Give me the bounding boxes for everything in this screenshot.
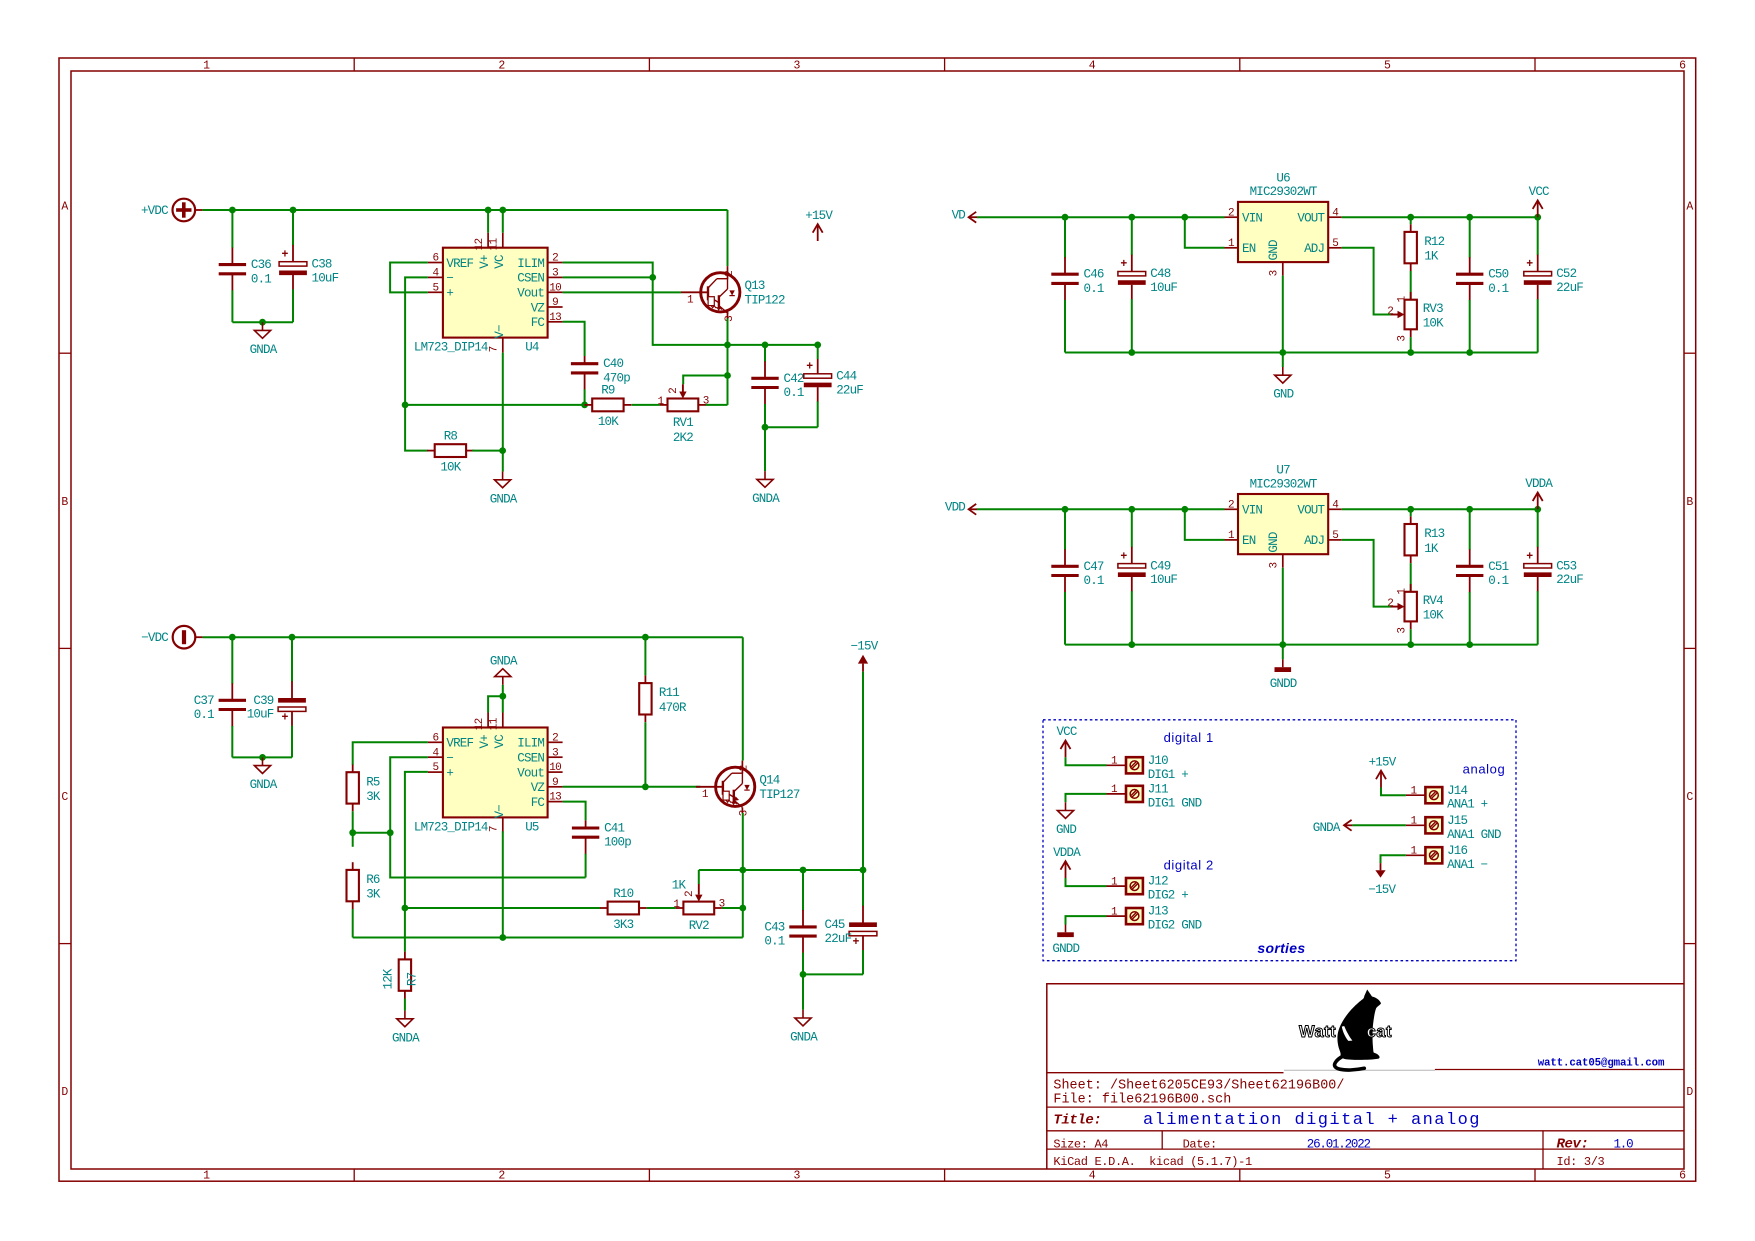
ground GNDA: [392, 1011, 420, 1046]
junction: [762, 424, 769, 431]
wire: [405, 277, 428, 450]
svg-text:−VDC: −VDC: [141, 631, 168, 645]
svg-text:VD: VD: [952, 208, 966, 222]
svg-text:KiCad E.D.A. kicad (5.1.7)-1: KiCad E.D.A. kicad (5.1.7)-1: [1053, 1155, 1252, 1169]
svg-text:LM723_DIP14: LM723_DIP14: [414, 341, 488, 355]
svg-text:EN: EN: [1242, 242, 1256, 256]
svg-text:0.1: 0.1: [1084, 282, 1104, 296]
svg-text:C48: C48: [1150, 267, 1170, 281]
svg-text:C43: C43: [764, 920, 784, 934]
resistor R10: [600, 887, 647, 932]
junction: [229, 634, 236, 641]
wire: [699, 869, 863, 871]
capacitor C44: [804, 359, 864, 427]
wire: [1410, 509, 1412, 516]
svg-text:Date:: Date:: [1183, 1137, 1217, 1151]
potentiometer RV1: [657, 384, 708, 430]
svg-text:3: 3: [724, 316, 736, 322]
ground GND: [1273, 367, 1293, 402]
svg-text:13: 13: [549, 312, 561, 324]
svg-text:GNDA: GNDA: [392, 1031, 420, 1045]
wire: [632, 404, 660, 406]
svg-text:C40: C40: [603, 357, 623, 371]
wire: [764, 427, 766, 471]
wire: [1282, 276, 1284, 353]
ground GNDA: [250, 757, 278, 792]
capacitor C53: [1524, 509, 1584, 644]
wire: [1410, 271, 1412, 300]
wire: [862, 672, 864, 870]
node sorties panel: [1043, 720, 1516, 961]
wire: [1381, 855, 1406, 863]
wire: [405, 907, 600, 909]
svg-text:B: B: [1686, 496, 1693, 509]
svg-text:DIG2 GND: DIG2 GND: [1148, 919, 1202, 933]
svg-text:watt.cat05@gmail.com: watt.cat05@gmail.com: [1538, 1058, 1665, 1070]
svg-text:C42: C42: [784, 372, 804, 386]
svg-text:2: 2: [498, 60, 505, 73]
svg-text:A: A: [61, 201, 68, 214]
svg-text:10uF: 10uF: [312, 271, 339, 285]
op-amp U4 LM723_DIP14: [414, 233, 563, 355]
wire: [727, 376, 729, 405]
svg-text:−: −: [446, 752, 453, 766]
svg-text:1: 1: [1397, 295, 1409, 302]
svg-text:C39: C39: [253, 694, 273, 708]
power +VDC: [141, 199, 202, 222]
wire: [1185, 217, 1225, 248]
wire: [647, 907, 676, 909]
svg-text:4: 4: [1089, 1170, 1096, 1183]
svg-text:R12: R12: [1424, 235, 1444, 249]
potentiometer RV2: [673, 884, 724, 933]
svg-text:C38: C38: [312, 257, 332, 271]
svg-text:VIN: VIN: [1242, 504, 1262, 518]
wire: [1066, 878, 1107, 886]
power VD: [952, 208, 977, 222]
svg-text:LM723_DIP14: LM723_DIP14: [414, 820, 488, 834]
power VDD: [945, 500, 977, 514]
wire: [1065, 644, 1538, 646]
svg-text:3: 3: [1269, 562, 1281, 568]
svg-text:J15: J15: [1447, 814, 1467, 828]
svg-text:1.0: 1.0: [1614, 1138, 1634, 1152]
svg-text:Vout: Vout: [517, 287, 544, 301]
svg-text:1: 1: [702, 789, 709, 801]
wire: [765, 426, 818, 428]
wire: [727, 319, 729, 345]
svg-text:5: 5: [432, 762, 438, 774]
svg-text:10uF: 10uF: [1150, 281, 1177, 295]
wire: [563, 802, 586, 821]
svg-text:6: 6: [1679, 60, 1686, 73]
svg-text:+VDC: +VDC: [141, 204, 168, 218]
capacitor C40: [571, 356, 630, 405]
transistor Q13 TIP122: [681, 266, 785, 322]
junction: [762, 342, 769, 349]
svg-text:V−: V−: [493, 805, 507, 819]
wire: [502, 685, 504, 696]
wire: [1342, 248, 1391, 315]
wire: [644, 637, 646, 675]
svg-text:C44: C44: [836, 370, 856, 384]
wire: [390, 263, 428, 293]
junction: [581, 402, 588, 409]
svg-text:File: file62196B00.sch: File: file62196B00.sch: [1053, 1093, 1231, 1108]
svg-text:0.1: 0.1: [764, 935, 784, 949]
capacitor C51: [1456, 509, 1509, 644]
potentiometer RV3: [1387, 292, 1444, 342]
svg-text:22uF: 22uF: [836, 383, 863, 397]
ground GNDA: [752, 471, 780, 506]
svg-text:10: 10: [549, 762, 561, 774]
svg-text:MIC29302WT: MIC29302WT: [1250, 477, 1318, 491]
svg-text:C49: C49: [1150, 559, 1170, 573]
op-amp U5 LM723_DIP14: [414, 713, 563, 835]
junction: [724, 342, 731, 349]
svg-text:+: +: [1526, 258, 1533, 271]
svg-text:5: 5: [1332, 238, 1338, 250]
wire: [563, 276, 653, 278]
junction: [349, 829, 356, 836]
junction: [499, 447, 506, 454]
junction: [642, 634, 649, 641]
wire: [1282, 353, 1284, 368]
svg-text:0.1: 0.1: [194, 708, 214, 722]
svg-text:VCC: VCC: [1529, 185, 1549, 199]
ground GNDA: [1313, 820, 1353, 835]
svg-text:GND: GND: [1273, 388, 1293, 402]
wire: [1282, 645, 1284, 660]
svg-text:D: D: [61, 1086, 68, 1099]
svg-text:V−: V−: [493, 325, 507, 339]
svg-text:analog: analog: [1463, 761, 1506, 776]
svg-text:1: 1: [687, 295, 694, 307]
svg-text:R6: R6: [366, 873, 380, 887]
junction: [1279, 349, 1286, 356]
junction: [229, 207, 236, 214]
svg-text:+: +: [282, 248, 289, 261]
svg-text:C37: C37: [194, 694, 214, 708]
svg-text:VC: VC: [493, 255, 507, 269]
svg-text:VZ: VZ: [531, 301, 546, 315]
connector J12: [1107, 875, 1189, 903]
wire: [502, 696, 504, 712]
svg-text:−15V: −15V: [1368, 883, 1396, 897]
svg-text:DIG1 +: DIG1 +: [1148, 768, 1189, 782]
wire: [352, 811, 354, 847]
svg-text:alimentation digital + analog: alimentation digital + analog: [1143, 1111, 1481, 1130]
svg-text:VREF: VREF: [446, 257, 473, 271]
regulator U7 MIC29302WT: [1225, 464, 1342, 569]
svg-text:10K: 10K: [1423, 317, 1444, 331]
svg-text:1: 1: [203, 1170, 210, 1183]
svg-text:C: C: [61, 791, 68, 804]
svg-text:RV2: RV2: [689, 919, 709, 933]
svg-text:3: 3: [552, 268, 558, 280]
wire: [727, 210, 729, 266]
svg-text:2K2: 2K2: [673, 431, 693, 445]
svg-text:V+: V+: [478, 735, 492, 749]
svg-text:0.1: 0.1: [784, 386, 804, 400]
svg-text:6: 6: [432, 732, 438, 744]
resistor R13: [1405, 516, 1445, 563]
svg-text:J10: J10: [1148, 754, 1168, 768]
svg-text:U7: U7: [1276, 464, 1290, 478]
junction: [402, 905, 409, 912]
junction: [800, 971, 807, 978]
junction: [1534, 214, 1541, 221]
svg-text:Rev:: Rev:: [1557, 1136, 1589, 1152]
wire: [1342, 216, 1538, 218]
svg-text:10K: 10K: [1423, 609, 1444, 623]
svg-text:7: 7: [489, 826, 501, 832]
svg-text:3: 3: [1397, 628, 1409, 634]
svg-text:R13: R13: [1424, 527, 1444, 541]
svg-text:2: 2: [552, 253, 558, 265]
node +VDC rail: [0, 0, 1, 1]
junction: [1466, 214, 1473, 221]
svg-text:U5: U5: [525, 820, 539, 834]
svg-text:1K: 1K: [1424, 542, 1439, 556]
ground GNDA: [250, 322, 278, 357]
svg-text:3: 3: [1269, 270, 1281, 276]
svg-text:digital 1: digital 1: [1164, 730, 1214, 745]
junction: [499, 934, 506, 941]
svg-text:3: 3: [552, 747, 558, 759]
ground GNDD: [1052, 925, 1079, 957]
svg-text:B: B: [61, 496, 68, 509]
svg-text:2: 2: [739, 765, 751, 771]
svg-text:RV4: RV4: [1423, 594, 1443, 608]
svg-text:11: 11: [489, 238, 501, 251]
svg-text:2: 2: [668, 388, 680, 394]
junction: [1407, 641, 1414, 648]
connector J10: [1107, 754, 1189, 782]
svg-text:2: 2: [1228, 499, 1234, 511]
junction: [1466, 506, 1473, 513]
junction: [1181, 506, 1188, 513]
svg-text:ANA1 GND: ANA1 GND: [1447, 828, 1501, 842]
svg-text:C50: C50: [1488, 268, 1508, 282]
junction: [1466, 641, 1473, 648]
svg-text:2: 2: [498, 1170, 505, 1183]
svg-text:TIP127: TIP127: [759, 788, 800, 802]
svg-text:0.1: 0.1: [1488, 282, 1508, 296]
svg-text:C47: C47: [1084, 560, 1104, 574]
wire: [698, 870, 700, 884]
svg-text:+: +: [853, 936, 860, 949]
svg-text:sorties: sorties: [1257, 940, 1305, 956]
svg-text:R10: R10: [613, 887, 633, 901]
wire: [563, 322, 585, 356]
capacitor C49: [1118, 509, 1178, 644]
svg-text:+: +: [282, 712, 289, 725]
svg-text:6: 6: [1679, 1170, 1686, 1183]
svg-text:VDD: VDD: [945, 500, 965, 514]
wire: [404, 999, 406, 1011]
svg-text:R7: R7: [406, 972, 420, 986]
junction: [402, 402, 409, 409]
regulator U6 MIC29302WT: [1225, 172, 1342, 277]
svg-text:26.01.2022: 26.01.2022: [1307, 1138, 1371, 1152]
svg-text:+: +: [1120, 550, 1127, 563]
junction: [1128, 506, 1135, 513]
svg-text:Q13: Q13: [745, 279, 765, 293]
junction: [1128, 641, 1135, 648]
capacitor C48: [1118, 217, 1178, 352]
capacitor C50: [1456, 217, 1509, 352]
wire: [202, 209, 727, 211]
power +15V: [805, 209, 833, 241]
wire: [563, 291, 681, 293]
svg-text:3K: 3K: [366, 888, 381, 902]
junction: [1062, 506, 1069, 513]
wire: [1066, 794, 1107, 802]
svg-text:VIN: VIN: [1242, 212, 1262, 226]
wire: [1410, 563, 1412, 592]
svg-text:13: 13: [549, 792, 561, 804]
junction: [485, 207, 492, 214]
junction: [1279, 641, 1286, 648]
junction: [259, 754, 266, 761]
svg-text:1: 1: [673, 899, 680, 911]
svg-text:C52: C52: [1556, 267, 1576, 281]
power VDDA: [1053, 846, 1081, 878]
svg-text:2: 2: [1228, 207, 1234, 219]
svg-text:3: 3: [739, 810, 751, 816]
svg-text:ADJ: ADJ: [1304, 242, 1324, 256]
wire: [353, 832, 391, 834]
svg-text:C41: C41: [604, 822, 624, 836]
svg-text:RV1: RV1: [673, 416, 693, 430]
svg-text:Id: 3/3: Id: 3/3: [1557, 1155, 1605, 1169]
power VDDA: [1525, 477, 1553, 509]
svg-text:GNDD: GNDD: [1270, 677, 1297, 691]
wire: [502, 831, 504, 937]
svg-text:FC: FC: [531, 796, 545, 810]
svg-text:2: 2: [724, 271, 736, 277]
wire: [1410, 629, 1412, 644]
capacitor C47: [1051, 509, 1104, 644]
svg-text:12: 12: [474, 239, 486, 251]
svg-text:GNDA: GNDA: [1313, 821, 1341, 835]
connector J13: [1107, 905, 1202, 933]
resistor R5: [347, 765, 381, 812]
wire: [1066, 757, 1107, 765]
junction: [1128, 214, 1135, 221]
svg-text:C51: C51: [1488, 560, 1508, 574]
svg-text:GNDA: GNDA: [250, 343, 278, 357]
svg-text:10K: 10K: [440, 461, 461, 475]
svg-text:3K3: 3K3: [613, 918, 633, 932]
svg-text:RV3: RV3: [1423, 302, 1443, 316]
svg-text:−15V: −15V: [851, 640, 879, 654]
power +15V: [1369, 755, 1397, 787]
svg-text:VREF: VREF: [446, 737, 473, 751]
connector J14: [1406, 784, 1488, 812]
svg-text:VDDA: VDDA: [1053, 846, 1081, 860]
svg-text:ADJ: ADJ: [1304, 534, 1324, 548]
wire: [722, 907, 743, 909]
svg-text:MIC29302WT: MIC29302WT: [1250, 185, 1318, 199]
svg-text:470R: 470R: [659, 701, 687, 715]
svg-text:3: 3: [1397, 336, 1409, 342]
capacitor C39: [247, 637, 306, 757]
junction: [259, 319, 266, 326]
wire: [563, 786, 701, 788]
svg-text:2: 2: [552, 732, 558, 744]
svg-text:9: 9: [552, 297, 558, 309]
wire: [488, 696, 503, 712]
svg-text:22uF: 22uF: [1556, 281, 1583, 295]
svg-text:GNDA: GNDA: [790, 1031, 818, 1045]
capacitor C38: [279, 210, 339, 322]
svg-text:3: 3: [794, 60, 801, 73]
wire: [977, 508, 1225, 510]
wire: [742, 813, 744, 870]
svg-text:0.1: 0.1: [251, 272, 271, 286]
junction: [1534, 506, 1541, 513]
wire: [1342, 508, 1538, 510]
svg-text:5: 5: [432, 282, 438, 294]
svg-text:5: 5: [1384, 60, 1391, 73]
wire: [1352, 824, 1406, 826]
svg-text:D: D: [1686, 1086, 1693, 1099]
svg-text:VOUT: VOUT: [1297, 212, 1325, 226]
junction: [499, 207, 506, 214]
svg-text:10uF: 10uF: [1150, 573, 1177, 587]
svg-text:R11: R11: [659, 686, 679, 700]
svg-text:VZ: VZ: [531, 781, 546, 795]
wire: [563, 263, 728, 345]
resistor R12: [1405, 224, 1445, 271]
svg-text:VOUT: VOUT: [1297, 504, 1325, 518]
svg-text:1K: 1K: [672, 878, 687, 892]
wire: [802, 974, 804, 1009]
junction: [724, 372, 731, 379]
svg-text:R8: R8: [444, 429, 458, 443]
svg-text:cat: cat: [1367, 1023, 1392, 1041]
junction: [649, 274, 656, 281]
svg-text:+: +: [1526, 550, 1533, 563]
svg-text:2: 2: [1387, 598, 1393, 610]
capacitor C42: [751, 345, 804, 427]
potentiometer RV4: [1387, 584, 1444, 634]
svg-text:C53: C53: [1556, 559, 1576, 573]
wire: [742, 637, 744, 760]
svg-text:0.1: 0.1: [1488, 574, 1508, 588]
svg-text:GND: GND: [1056, 823, 1076, 837]
svg-text:1K: 1K: [1424, 250, 1439, 264]
junction: [1128, 349, 1135, 356]
junction: [1181, 214, 1188, 221]
wire: [203, 636, 743, 638]
svg-text:C46: C46: [1084, 268, 1104, 282]
capacitor C52: [1524, 217, 1584, 352]
svg-text:DIG1 GND: DIG1 GND: [1148, 796, 1202, 810]
wire: [472, 450, 503, 452]
junction: [1407, 349, 1414, 356]
wire: [232, 321, 293, 323]
svg-text:+: +: [446, 766, 453, 780]
svg-text:+: +: [446, 287, 453, 301]
svg-text:10: 10: [549, 282, 561, 294]
connector J16: [1406, 844, 1488, 872]
junction: [289, 634, 296, 641]
wire: [1410, 337, 1412, 352]
wire: [405, 404, 584, 406]
